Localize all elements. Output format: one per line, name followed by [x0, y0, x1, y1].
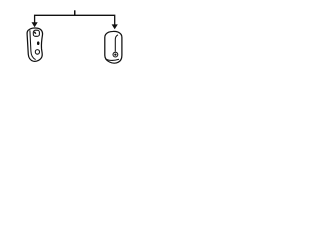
- bracket center tick: [74, 10, 76, 15]
- device B bottom button dot: [114, 53, 116, 55]
- right arrow head: [112, 24, 118, 29]
- device A middle dark button: [37, 41, 40, 45]
- device A inner left edge line: [30, 30, 36, 59]
- device B inner vertical line: [115, 35, 118, 52]
- device A lower oval button: [35, 50, 39, 55]
- device B outline (right device): [105, 31, 122, 63]
- device B inner bottom curve: [105, 59, 119, 61]
- left arrow head: [32, 22, 38, 27]
- device A top button (rounded square): [33, 30, 39, 36]
- bracket horizontal line: [35, 15, 115, 24]
- device B bottom button circle: [113, 52, 118, 57]
- device A outline (left device): [27, 28, 42, 61]
- device A top button indicator (diagonal mark): [34, 32, 36, 34]
